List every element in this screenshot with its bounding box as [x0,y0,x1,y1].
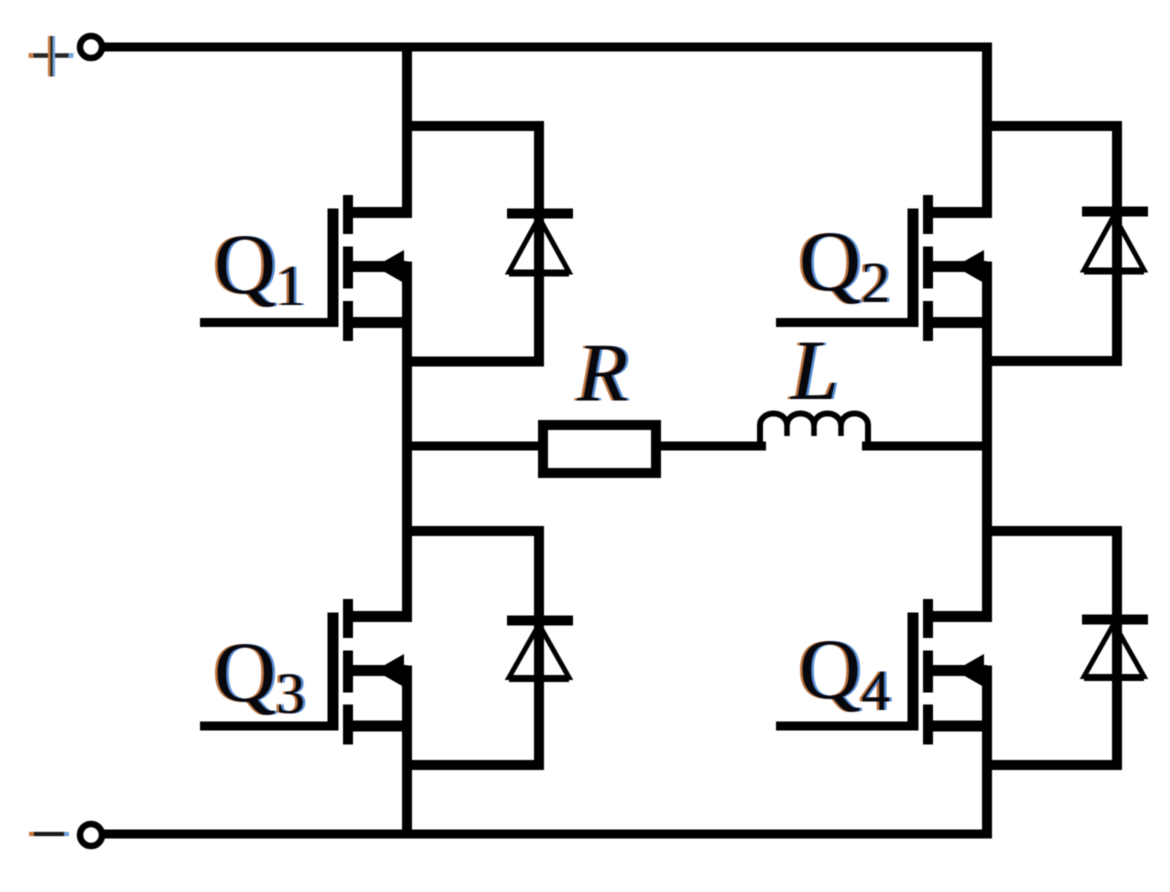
wire: body diode D1 anode to Q1 source [402,357,544,367]
wire: top positive rail [104,43,992,52]
diode D4 cathode bar [1082,615,1148,625]
svg-text:L: L [789,322,839,418]
transistor Q3 drain lead wire [348,611,412,622]
wire: right bus, Q4 source/body to negative rail [982,666,992,839]
wire: left bridge midpoint to resistor R [402,442,543,451]
positive input terminal node [80,36,102,58]
wire: left bus, positive rail to Q1 drain [402,43,412,218]
transistor Q3 channel body segment [343,651,353,693]
svg-text:Q4: Q4 [799,621,890,723]
diode D2 triangle [1084,216,1144,271]
wire: D1 cathode-to-anode through line [534,126,544,366]
label R [574,327,631,420]
wire: inductor L to right bridge midpoint [862,442,992,451]
transistor Q4 gate bar [908,613,919,731]
transistor Q2 channel source segment [923,301,933,341]
diode D1 triangle [509,218,569,273]
label Q2 [797,213,893,315]
transistor Q3 source lead wire [348,721,412,732]
transistor Q3 gate lead wire [200,722,338,731]
wire: Q2 drain branch to body diode D2 [982,121,1122,131]
wire: D2 cathode-to-anode through line [1112,126,1122,366]
diode D2 cathode bar [1082,207,1148,217]
svg-text:R: R [576,327,628,420]
transistor Q1 source lead wire [348,317,412,328]
transistor Q4 source lead wire [928,721,992,732]
wire: left bus, Q1 source/body to Q3 drain [402,262,412,622]
svg-text:Q1: Q1 [214,216,305,318]
transistor Q1 channel source segment [343,301,353,341]
transistor Q4 gate lead wire [776,722,918,731]
transistor Q1 drain lead wire [348,207,412,218]
minus terminal label [29,832,69,836]
transistor Q2 gate bar [908,209,919,328]
resistor R [543,425,656,473]
transistor Q2 channel body segment [923,247,933,289]
svg-text:Q2: Q2 [799,213,890,315]
diode D2 anode base bar [1084,269,1144,275]
wire: Q4 drain branch to body diode D4 [982,526,1122,536]
transistor Q4 channel source segment [923,705,933,745]
diode D3 triangle [509,625,569,678]
transistor Q4 body arrow [955,654,984,687]
transistor Q1 channel drain segment [343,195,353,234]
transistor Q1 gate lead wire [200,318,338,327]
diode D3 anode base bar [509,676,569,682]
transistor Q3 body lead wire [350,665,407,676]
transistor Q2 body lead wire [930,261,987,272]
plus terminal label [29,36,74,77]
transistor Q2 source lead wire [928,317,992,328]
transistor Q1 channel body segment [343,247,353,289]
label Q4 [797,621,893,723]
svg-text:Q3: Q3 [214,624,305,726]
transistor Q2 body arrow [955,250,984,283]
wire: D4 cathode-to-anode through line [1112,531,1122,770]
transistor Q3 body arrow [375,654,404,687]
diode D1 anode base bar [509,271,569,277]
diode D3 cathode bar [507,616,573,626]
wire: right bus, positive rail to Q2 drain [982,43,992,218]
wire: D3 cathode-to-anode through line [534,531,544,770]
diode D4 anode base bar [1084,675,1144,681]
transistor Q1 body lead wire [350,261,407,272]
transistor Q2 channel drain segment [923,195,933,234]
transistor Q2 drain lead wire [928,207,992,218]
label Q1 [212,216,308,318]
wire: body diode D3 anode to Q3 source [402,760,544,770]
negative input terminal node [80,824,102,846]
transistor Q3 gate bar [328,613,339,731]
transistor Q1 body arrow [375,250,404,283]
wire: body diode D2 anode to Q2 source [982,356,1122,366]
inductor L [760,414,868,450]
wire: right bus, Q2 source/body to Q4 drain [982,262,992,622]
transistor Q3 channel drain segment [343,599,353,638]
diode D4 triangle [1084,624,1144,677]
wire: Q3 drain branch to body diode D3 [402,526,544,536]
transistor Q2 gate lead wire [776,318,918,327]
wire: body diode D4 anode to Q4 source [982,760,1122,770]
wire: bottom negative rail [104,830,992,839]
wire: left bus, Q3 source/body to negative rail [402,666,412,839]
transistor Q4 channel body segment [923,651,933,693]
wire: Q1 drain branch to body diode D1 [402,121,544,131]
transistor Q4 body lead wire [930,665,987,676]
transistor Q3 channel source segment [343,705,353,745]
transistor Q1 gate bar [328,209,339,328]
transistor Q4 drain lead wire [928,611,992,622]
label Q3 [212,624,308,726]
wire: resistor R to inductor L [656,442,766,451]
transistor Q4 channel drain segment [923,599,933,638]
diode D1 cathode bar [507,209,573,219]
label L [787,322,842,418]
